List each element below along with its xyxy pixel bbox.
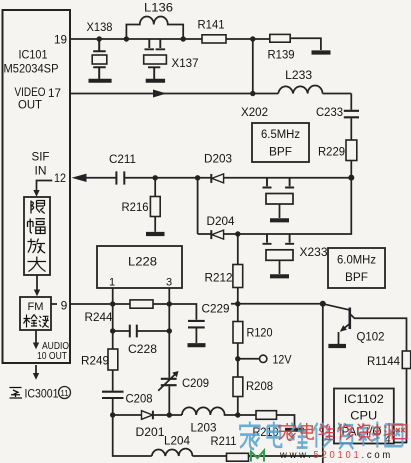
svg-text:R216: R216 [122, 200, 149, 214]
resistor R141 [202, 35, 226, 43]
svg-text:IN: IN [35, 164, 47, 178]
svg-text:www.520101.com: www.520101.com [279, 450, 393, 461]
capacitor C229 [188, 321, 205, 328]
svg-text:6.0MHz: 6.0MHz [337, 255, 376, 267]
diode D203 [210, 174, 212, 183]
junction [167, 412, 172, 417]
svg-text:6.5MHz: 6.5MHz [261, 129, 300, 141]
crystal X138 [93, 39, 106, 51]
resistor R120 [237, 304, 239, 322]
svg-text:C228: C228 [128, 342, 157, 356]
svg-text:X137: X137 [172, 56, 199, 70]
resistor R212 [237, 234, 239, 265]
ground Q102 emitter [328, 344, 346, 348]
inductor L136 [126, 17, 183, 40]
capacitor C233 [344, 111, 359, 118]
svg-text:BPF: BPF [269, 147, 292, 159]
ground R216 [146, 232, 165, 236]
svg-text:R1144: R1144 [367, 354, 400, 368]
svg-text:M52034SP: M52034SP [4, 64, 59, 76]
resistor R1144 [402, 351, 410, 369]
IC1102 box [334, 389, 394, 444]
junction [110, 301, 115, 306]
svg-text:L233: L233 [285, 68, 312, 82]
L228 box [97, 246, 182, 288]
junction [110, 412, 115, 417]
resistor R139 [270, 34, 290, 42]
capacitor C228 [113, 330, 170, 332]
junction [348, 175, 354, 181]
junction [167, 301, 172, 306]
wire to C233 [350, 94, 352, 110]
svg-text:10 OUT: 10 OUT [37, 350, 67, 362]
inductor L203 [182, 407, 238, 415]
svg-text:R212: R212 [205, 271, 233, 285]
svg-text:3: 3 [166, 277, 172, 289]
wire R229 to junction [350, 161, 352, 178]
svg-text:X202: X202 [241, 105, 268, 119]
inductor L233 [278, 86, 322, 94]
junction [235, 301, 240, 306]
resistor R211 [227, 453, 249, 461]
svg-text:C208: C208 [126, 392, 153, 406]
junction [250, 91, 255, 96]
ground filter 6.5MHz [270, 218, 289, 222]
junction [250, 36, 255, 41]
wire R139 to ground [290, 38, 321, 50]
svg-text:CPU: CPU [350, 409, 377, 423]
svg-text:9: 9 [61, 299, 68, 313]
BPF 6.0MHz box [328, 248, 385, 288]
svg-text:D203: D203 [204, 152, 232, 166]
op-amp IC101 block outline [3, 10, 71, 363]
svg-text:C229: C229 [202, 302, 230, 316]
svg-text:L136: L136 [144, 1, 173, 15]
svg-text:IC3001: IC3001 [25, 387, 59, 401]
ground X138 [89, 79, 112, 83]
svg-text:BPF: BPF [345, 272, 368, 284]
svg-text:OUT: OUT [18, 98, 43, 112]
svg-text:SIF: SIF [32, 150, 50, 164]
transistor Q102 [320, 301, 326, 307]
wire pin9 line continuation to Q102 [231, 303, 323, 305]
svg-text:R211: R211 [211, 434, 237, 448]
wire arrow below IC to IC3001 [35, 365, 37, 374]
watermark green glyph [251, 451, 264, 462]
junction [235, 231, 240, 236]
wire FM box to pin 9 [51, 303, 57, 305]
svg-text:L228: L228 [128, 255, 157, 269]
glyph xian [31, 201, 45, 214]
svg-text:19: 19 [54, 33, 67, 47]
wire internal elbow pin12 to limiter [37, 181, 53, 192]
resistor R249 [108, 349, 118, 370]
ceramic filter X233 [263, 234, 295, 244]
svg-text:Q102: Q102 [357, 330, 385, 344]
svg-text:X233: X233 [300, 245, 328, 259]
C229 label [200, 302, 231, 316]
junction [195, 175, 200, 180]
wire D201 line [113, 414, 182, 416]
wire X202 vertical [252, 39, 254, 94]
watermark cyan text layer [240, 422, 402, 450]
svg-text:C209: C209 [182, 376, 209, 390]
svg-text:11: 11 [61, 388, 69, 398]
glyph da [28, 257, 47, 272]
capacitor C208 [102, 392, 124, 398]
junction [124, 36, 129, 41]
junction [167, 328, 172, 333]
wire right vertical to D204 line [224, 178, 352, 234]
svg-text:12V: 12V [273, 353, 292, 367]
wire L228 pin3 drop [168, 288, 170, 378]
wire pin 9 net [70, 304, 196, 320]
svg-text:IC101: IC101 [19, 48, 48, 62]
svg-text:R141: R141 [198, 18, 225, 32]
wire arrow FM to audio out [35, 330, 37, 344]
svg-text:L204: L204 [164, 434, 190, 448]
resistor R216 [154, 178, 156, 197]
glyph fu [28, 219, 46, 234]
signal arrow pin 12 [72, 174, 87, 182]
ground bar R210 [285, 428, 304, 432]
resistor R244 [130, 300, 153, 308]
inductor L204 [152, 449, 193, 456]
svg-text:D204: D204 [207, 214, 235, 228]
wire pin 19 net [70, 38, 253, 40]
trimmer capacitor C209 [161, 379, 177, 385]
FM detector box [20, 297, 51, 330]
wire arrow limiter to FM box [36, 275, 38, 291]
wire Q102 base net down [322, 304, 324, 463]
resistor R229 [346, 140, 357, 161]
capacitor C211 [116, 171, 124, 184]
destination label zhi IC3001 (11) [10, 388, 23, 399]
resistor R210 [238, 414, 256, 416]
svg-text:1: 1 [109, 277, 115, 289]
wire L228 pin1 drop [112, 288, 114, 349]
ground X137 [146, 79, 165, 83]
diode D204 [210, 230, 212, 239]
svg-text:C211: C211 [109, 152, 136, 166]
ground R139 [312, 50, 331, 54]
svg-text:R249: R249 [81, 354, 109, 368]
svg-text:R229: R229 [318, 145, 345, 159]
glyph jian [24, 315, 38, 328]
ground C229 [188, 343, 206, 347]
svg-text:R244: R244 [85, 310, 113, 324]
svg-text:FM: FM [28, 301, 44, 313]
wire to R139 [253, 38, 270, 40]
wire bottom net [113, 415, 322, 456]
svg-text:R139: R139 [268, 48, 295, 62]
wire D204 to pin12 vertical [198, 178, 212, 234]
svg-text:IC1102: IC1102 [344, 392, 384, 406]
glyph fang [28, 239, 46, 254]
svg-text:R208: R208 [246, 379, 273, 393]
svg-text:R120: R120 [247, 326, 273, 340]
svg-text:D201: D201 [136, 425, 165, 439]
svg-text:X138: X138 [87, 20, 113, 34]
wire pin 12 net [86, 177, 352, 179]
diode D201 [142, 411, 153, 420]
junction [153, 175, 158, 180]
glyph bo [39, 316, 49, 328]
ceramic filter 6.5MHz [263, 178, 295, 188]
junction [97, 36, 102, 41]
svg-text:12: 12 [54, 171, 66, 185]
wire pin 17 net [70, 93, 351, 95]
junction [181, 36, 186, 41]
svg-text:17: 17 [48, 86, 61, 100]
svg-text:C233: C233 [316, 105, 343, 119]
svg-text:L203: L203 [191, 421, 217, 435]
junction [110, 328, 115, 333]
signal arrow pin 17 [153, 90, 167, 98]
12V supply tap [235, 356, 240, 361]
resistor R208 [237, 359, 239, 377]
BPF 6.5MHz box [252, 123, 309, 162]
limiter amp box (xian fu fang da) [24, 197, 50, 275]
crystal X137 [145, 39, 166, 49]
watermark red text layer [279, 423, 407, 440]
junction [235, 412, 240, 417]
ground X233 [270, 274, 289, 278]
